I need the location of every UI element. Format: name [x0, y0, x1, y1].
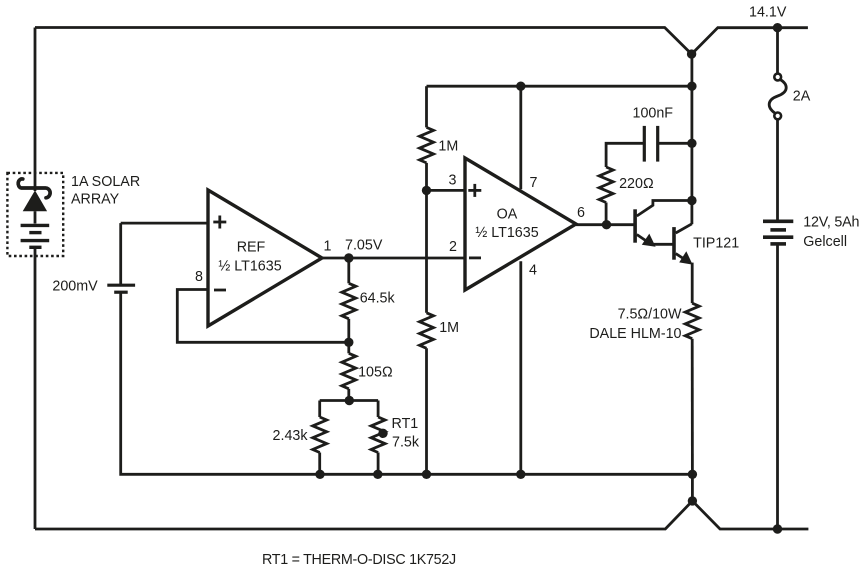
svg-text:100nF: 100nF — [633, 106, 674, 122]
svg-text:200mV: 200mV — [52, 279, 98, 295]
minus input mark REF — [214, 289, 226, 292]
svg-text:12V, 5Ah: 12V, 5Ah — [803, 214, 859, 230]
svg-text:105Ω: 105Ω — [358, 365, 393, 381]
wire: mid supply rail — [427, 85, 692, 88]
svg-text:½ LT1635: ½ LT1635 — [218, 259, 281, 275]
svg-text:7.5Ω/10W: 7.5Ω/10W — [618, 307, 682, 323]
svg-text:2.43k: 2.43k — [273, 428, 309, 444]
node: Q1 collector junction — [687, 196, 696, 205]
resistor R1 64.5k — [342, 258, 356, 342]
node: emitter rail to ground rail — [688, 470, 697, 479]
fuse F1 2A — [769, 28, 786, 220]
resistor R5 1M lower — [420, 190, 434, 474]
wire: left vertical from top rail into solar array — [34, 28, 37, 192]
svg-text:6: 6 — [577, 205, 585, 221]
node: REF output — [344, 253, 353, 262]
node: top bump junction — [687, 49, 696, 58]
svg-text:REF: REF — [237, 240, 266, 256]
svg-text:64.5k: 64.5k — [360, 291, 396, 307]
svg-text:1: 1 — [324, 239, 332, 255]
wire: bump vertical — [691, 474, 694, 501]
resistor R6 220ohm — [599, 167, 613, 225]
pin 7 label and wire — [519, 86, 522, 189]
svg-text:4: 4 — [529, 263, 537, 279]
svg-text:RT1: RT1 — [392, 416, 419, 432]
wire: REF + input — [121, 222, 208, 225]
resistor R7 7.5ohm — [685, 303, 699, 474]
node: bottom bump junction — [688, 496, 697, 505]
svg-text:TIP121: TIP121 — [693, 236, 739, 252]
svg-text:RT1 = THERM-O-DISC 1K752J: RT1 = THERM-O-DISC 1K752J — [262, 552, 456, 568]
wire: pin3 — [427, 189, 466, 192]
svg-text:3: 3 — [449, 172, 457, 188]
svg-text:8: 8 — [195, 269, 203, 285]
svg-text:2A: 2A — [793, 89, 811, 105]
plus input mark REF — [213, 216, 226, 229]
resistor R4 1M upper — [420, 86, 434, 190]
node: output/220 junction — [602, 220, 611, 229]
solar array PV1 — [7, 173, 63, 529]
svg-text:7.5k: 7.5k — [392, 434, 420, 450]
op-amp U1b OA — [465, 158, 576, 290]
battery B1 12V 5Ah — [763, 221, 793, 529]
transistor Q2 (TIP121 output) — [674, 224, 693, 303]
svg-text:ARRAY: ARRAY — [71, 192, 120, 208]
minus input mark OA — [469, 256, 481, 259]
battery B2 200mV — [107, 223, 135, 292]
thermistor RT1 7.5k — [371, 401, 388, 475]
svg-text:7: 7 — [530, 175, 538, 191]
wire: collector rail vertical — [691, 54, 694, 224]
wire: REF output 7.05V — [322, 257, 465, 260]
svg-text:14.1V: 14.1V — [749, 5, 787, 21]
svg-text:2: 2 — [449, 239, 457, 255]
node: mid rail to collector rail — [687, 82, 696, 91]
node: battery bottom junction — [773, 524, 782, 533]
op-amp U1a REF — [208, 190, 322, 326]
svg-text:220Ω: 220Ω — [619, 176, 654, 192]
wire: bottom rail with bump — [35, 501, 808, 529]
wire: top rail with bump to collector rail — [35, 28, 808, 55]
capacitor C1 100nF — [606, 126, 692, 167]
node: cap to collector rail — [687, 139, 696, 148]
svg-text:OA: OA — [497, 206, 518, 222]
wire: OA output to base — [576, 223, 635, 226]
svg-text:1M: 1M — [439, 320, 459, 336]
transistor Q1 (TIP121 input) — [635, 201, 692, 247]
wire: ground rail 1 — [121, 292, 693, 474]
node: 14.1V rail junction — [773, 23, 782, 32]
resistor R2 105ohm — [342, 342, 356, 400]
svg-text:½ LT1635: ½ LT1635 — [475, 225, 538, 241]
svg-text:1M: 1M — [438, 138, 458, 154]
svg-text:1A SOLAR: 1A SOLAR — [71, 174, 140, 190]
svg-text:DALE HLM-10: DALE HLM-10 — [589, 326, 681, 342]
node: pin7 tee — [516, 82, 525, 91]
plus input mark OA — [468, 184, 481, 197]
node: feedback junction — [344, 338, 353, 347]
svg-text:Gelcell: Gelcell — [803, 234, 847, 250]
wire: parallel pair top bar — [320, 399, 378, 402]
node: divider junction — [345, 396, 354, 405]
svg-text:7.05V: 7.05V — [345, 237, 383, 253]
node: pin3 junction — [422, 186, 431, 195]
wire: REF feedback to - input — [177, 290, 348, 343]
pin 4 label and wire — [519, 261, 522, 474]
node dots on ground rail 1 — [315, 470, 324, 479]
resistor R3 2.43k — [313, 401, 327, 475]
